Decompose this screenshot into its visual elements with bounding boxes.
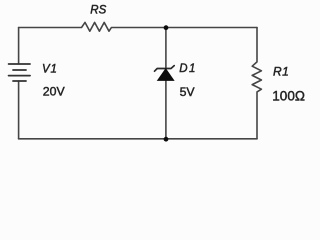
svg-text:5V: 5V bbox=[180, 85, 196, 99]
svg-text:V1: V1 bbox=[42, 63, 58, 75]
svg-text:R1: R1 bbox=[273, 65, 289, 79]
svg-text:100Ω: 100Ω bbox=[272, 88, 305, 103]
svg-text:D1: D1 bbox=[179, 63, 197, 75]
svg-text:20V: 20V bbox=[43, 85, 66, 99]
svg-text:RS: RS bbox=[90, 4, 106, 16]
